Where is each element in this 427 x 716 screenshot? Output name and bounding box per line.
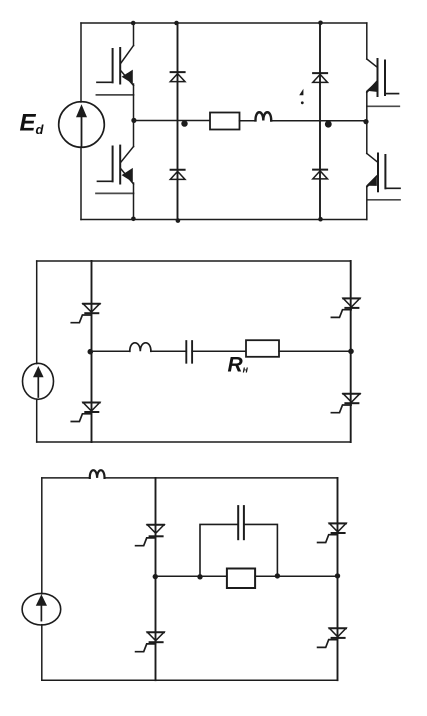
transistor VT3 (upper-right IGBT) bbox=[366, 23, 399, 122]
diode VD4 (lower-right) bbox=[313, 170, 328, 179]
capacitor C3 plates bbox=[238, 506, 244, 539]
wire bottom bus C3 bbox=[42, 679, 338, 681]
thyristor VS5 (upper-left) bbox=[136, 525, 164, 546]
junction dot C3 mid-left of box bbox=[197, 574, 202, 579]
thyristor VS8 (lower-right) bbox=[318, 628, 346, 647]
junction dot bottom wire left IGBT leg bbox=[131, 217, 136, 222]
wire left vertical C2 lower bbox=[36, 399, 38, 442]
wire left vertical C2 upper bbox=[36, 261, 38, 364]
wire middle bus C3 segment 2 bbox=[255, 575, 337, 577]
wire right diode column C1 bbox=[319, 23, 321, 220]
junction dot middle-right bbox=[325, 121, 332, 128]
wire left diode column C1 bbox=[177, 23, 179, 220]
artifact mark 4 bbox=[299, 89, 303, 104]
wire top bus C3 segment 2 bbox=[105, 477, 338, 479]
junction dot C2 right mid bbox=[348, 349, 354, 355]
current source arrow C1 bbox=[76, 104, 87, 146]
diode VD1 (upper-left) bbox=[170, 72, 185, 82]
resistor Rn load bbox=[246, 340, 279, 357]
wire middle bus C1 segment 1 bbox=[134, 120, 211, 122]
wire left thyristor column C3 bbox=[155, 478, 157, 680]
wire left vertical C1 upper bbox=[80, 23, 82, 102]
wire left vertical C1 lower bbox=[80, 147, 82, 220]
wire bottom bus C1 bbox=[81, 219, 367, 221]
thyristor VS4 (lower-right) bbox=[331, 394, 359, 413]
wire capacitor branch left riser bbox=[200, 524, 238, 576]
inductor L2 bbox=[130, 343, 151, 351]
current source circle C2 bbox=[23, 363, 54, 399]
junction dot C3 left mid bbox=[153, 574, 158, 579]
current source arrow C3 bbox=[36, 594, 47, 620]
junction dot bottom wire left diode leg bbox=[176, 218, 181, 223]
current source arrow C2 bbox=[33, 366, 44, 397]
wire middle bus C1 segment 2 bbox=[240, 120, 256, 122]
junction dot bottom wire right diode leg bbox=[318, 217, 323, 222]
junction dot C3 mid-right of box bbox=[275, 573, 280, 578]
transistor VT1 (upper-left IGBT) bbox=[96, 23, 133, 121]
diode VD2 (lower-left) bbox=[170, 170, 185, 180]
wire middle bus C2 segment 2 bbox=[151, 350, 186, 352]
transistor VT2 (lower-left IGBT) bbox=[96, 121, 134, 220]
junction dot node A (left mid) bbox=[131, 118, 136, 123]
inductor L3 bbox=[90, 470, 105, 478]
junction dot top wire left IGBT leg bbox=[131, 21, 136, 26]
wire middle bus C2 segment 3 bbox=[192, 350, 246, 352]
thyristor VS3 (upper-right) bbox=[331, 298, 359, 317]
wire middle bus C3 segment 1 bbox=[156, 575, 227, 577]
wire top bus C2 bbox=[37, 260, 351, 262]
junction dot C3 right mid bbox=[335, 573, 340, 578]
junction dot top wire right diode leg bbox=[318, 21, 323, 26]
wire middle bus C2 segment 1 bbox=[92, 350, 130, 352]
junction dot top wire left diode leg bbox=[174, 21, 179, 26]
thyristor VS1 (upper-left) bbox=[71, 304, 99, 323]
current source circle C1 bbox=[59, 102, 105, 148]
wire left thyristor column C2 bbox=[91, 261, 93, 442]
wire middle bus C1 segment 3 bbox=[271, 120, 367, 122]
wire middle bus C2 segment 4 bbox=[279, 350, 351, 352]
wire left vertical C3 upper bbox=[41, 478, 43, 594]
wire top bus C1 bbox=[81, 22, 367, 24]
wire right thyristor column C2 bbox=[350, 261, 352, 442]
wire bottom bus C2 bbox=[37, 441, 351, 443]
current source circle C3 bbox=[22, 593, 61, 625]
diode VD3 (upper-right) bbox=[313, 73, 328, 82]
thyristor VS7 (upper-right) bbox=[318, 523, 346, 542]
wire right thyristor column C3 bbox=[337, 478, 339, 680]
resistor load C3 bbox=[227, 569, 255, 589]
junction dot node B (right mid) bbox=[363, 119, 368, 124]
junction dot middle-left bbox=[181, 120, 187, 126]
wire capacitor branch right riser bbox=[244, 524, 278, 576]
junction dot C2 left mid bbox=[88, 349, 94, 355]
wire top bus C3 segment 1 bbox=[42, 477, 90, 479]
wire left vertical C3 lower bbox=[41, 625, 43, 681]
thyristor VS6 (lower-left) bbox=[136, 632, 164, 652]
inductor L1 bbox=[255, 112, 271, 120]
thyristor VS2 (lower-left) bbox=[71, 403, 99, 422]
transistor VT4 (lower-right IGBT) bbox=[366, 122, 400, 220]
resistor load C1 bbox=[210, 113, 240, 130]
capacitor C2 plates bbox=[186, 341, 192, 363]
